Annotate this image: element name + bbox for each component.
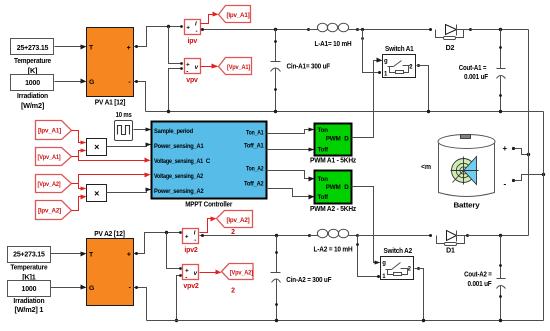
svg-text:-: - [185, 274, 187, 281]
negative bus [543, 112, 545, 321]
svg-text:Irradiation: Irradiation [17, 91, 48, 100]
svg-text:Cin-A1= 300 uF: Cin-A1= 300 uF [287, 64, 331, 71]
goto tag [Vpv_A1] [219, 58, 252, 75]
wire Irradiation1 to PV A2 G [51, 285, 87, 290]
svg-text:Switch A2: Switch A2 [383, 248, 412, 255]
PWM generator block PWM A1 [310, 124, 357, 165]
wire PV A1 - to bottom rail [134, 80, 146, 112]
svg-text:C: C [206, 158, 211, 165]
breaker block Switch A1 [383, 46, 416, 78]
svg-text:[W/m2] 1: [W/m2] 1 [14, 305, 43, 314]
node vpv+ tap [167, 25, 170, 28]
svg-text:-: - [196, 28, 198, 35]
svg-text:G: G [89, 285, 94, 292]
inductor L-A1 [307, 23, 359, 48]
svg-text:PWM A1 - 5KHz: PWM A1 - 5KHz [310, 157, 357, 165]
wire Temperature1 to PV A2 T [51, 252, 87, 257]
svg-text:[Ipv_A2]: [Ipv_A2] [227, 217, 250, 224]
wire switch A2 port 2 to rail [415, 267, 426, 322]
node vpv- on rail [167, 110, 170, 113]
positive bus [528, 30, 530, 236]
PV array block PV A2 [12] [87, 229, 134, 306]
capacitor Cin-A2 [271, 234, 333, 322]
wire product2 to MPPT Power_sensing_A2 [107, 188, 152, 193]
red signal wire ipv2 to goto tag [200, 217, 217, 233]
svg-text:-: - [186, 68, 188, 75]
red wire [Ipv_A1] to product1 [72, 131, 87, 145]
wire tap to vpv2 + [167, 233, 182, 270]
svg-text:+: + [127, 45, 131, 52]
svg-text:0.001 uF: 0.001 uF [468, 281, 493, 288]
red wire [Vpv_A1] to MPPT Voltage_sensing_A1 [79, 157, 151, 163]
svg-text:Power_sensing_A2: Power_sensing_A2 [154, 188, 204, 195]
red signal wire ipv to goto tag [201, 12, 219, 24]
wire PWM A1 D to switch A1 gate [352, 61, 377, 138]
svg-text:[Vpv_A1]: [Vpv_A1] [38, 154, 61, 161]
wire tap to switch A1 port 1 [363, 30, 382, 75]
svg-text:ipv: ipv [188, 38, 198, 45]
svg-text:[K]1: [K]1 [22, 272, 36, 281]
goto tag [Vpv_A2] [222, 264, 254, 295]
svg-text:2: 2 [231, 288, 235, 295]
svg-text:Ton: Ton [318, 127, 329, 134]
wire D1 to + bus [468, 235, 529, 237]
from tag [Ipv_A1] [36, 121, 72, 140]
svg-text:[K]: [K] [28, 66, 38, 75]
red wire [Ipv_A2] to product2 [72, 195, 87, 211]
wire Toff_A1 to PWM A1 [267, 148, 315, 152]
from tag [Ipv_A2] [36, 201, 72, 220]
voltage sensor vpv2 [183, 265, 199, 290]
svg-text:1000: 1000 [25, 80, 40, 87]
wire ipv2 out (main) [200, 234, 310, 237]
svg-text:1000: 1000 [22, 286, 37, 293]
svg-text:[Ipv_A1]: [Ipv_A1] [38, 128, 61, 135]
svg-text:Cout-A1 =: Cout-A1 = [459, 65, 487, 72]
svg-text:G: G [89, 79, 94, 86]
svg-text:Toff: Toff [318, 147, 330, 154]
svg-text:Cout-A2 =: Cout-A2 = [464, 272, 492, 279]
wire Toff_A2 to PWM A2 [267, 189, 315, 200]
product block 1 [87, 139, 107, 156]
battery + port [503, 144, 531, 156]
svg-text:PV A1 [12]: PV A1 [12] [95, 98, 126, 107]
svg-text:Cin-A2 = 300 uF: Cin-A2 = 300 uF [286, 277, 332, 284]
svg-text:Toff_A2: Toff_A2 [244, 181, 264, 188]
svg-text:0.001 uF: 0.001 uF [464, 74, 489, 81]
svg-text:Toff_A1: Toff_A1 [244, 143, 264, 150]
wire PV A1 + to ipv [134, 25, 183, 48]
svg-text:Temperature: Temperature [10, 263, 47, 272]
voltage sensor vpv [185, 59, 201, 84]
red wire [Vpv_A1] branch to product1 [72, 149, 87, 157]
wire PWM A2 D to switch A2 gate [352, 187, 377, 263]
switch A2 gate arrow [375, 261, 381, 265]
svg-text:L-A1= 10 mH: L-A1= 10 mH [315, 41, 352, 48]
svg-text:vpv: vpv [186, 77, 198, 84]
svg-text:Power_sensing_A1: Power_sensing_A1 [154, 143, 204, 150]
capacitor Cout-A1 [459, 28, 506, 113]
svg-text:[Ipv_A2]: [Ipv_A2] [38, 208, 61, 215]
constant block 1000 (Irradiation) [11, 75, 54, 110]
svg-text:D: D [344, 135, 349, 142]
svg-text:L-A2 = 10 mH: L-A2 = 10 mH [314, 246, 353, 253]
svg-text:vpv2: vpv2 [183, 283, 198, 290]
current sensor ipv [185, 20, 201, 45]
product block 2 [87, 185, 107, 202]
PWM generator block PWM A2 [310, 171, 357, 214]
from tag [Vpv_A2] [36, 175, 72, 193]
svg-text:D: D [344, 184, 349, 191]
wire ipv out (main) [201, 28, 309, 31]
svg-text:ipv2: ipv2 [184, 247, 198, 254]
capacitor Cout-A2 [464, 234, 505, 322]
svg-text:-: - [194, 237, 196, 244]
battery - port [504, 173, 546, 189]
pulse generator 10 ms [115, 112, 133, 141]
svg-text:+: + [127, 251, 131, 258]
wire inductor to diode D2 [358, 29, 431, 31]
current sensor ipv2 [183, 229, 199, 254]
bottom rail of converter A1 [146, 111, 544, 113]
svg-text:+: + [503, 144, 508, 153]
svg-text:Toff: Toff [318, 194, 330, 201]
wire tap to switch A2 port 1 [356, 236, 380, 279]
node switch tap A1 [361, 28, 364, 40]
svg-text:PWM A2 - 5KHz: PWM A2 - 5KHz [310, 205, 357, 213]
svg-text:2: 2 [231, 229, 235, 236]
svg-text:g: g [384, 58, 388, 64]
switch A1 gate arrow [377, 58, 383, 63]
svg-text:PWM: PWM [326, 184, 341, 191]
red wire [Vpv_A2] branch to product2 [79, 184, 87, 191]
node vpv2+ tap [165, 231, 168, 234]
wire D2 to + bus [471, 29, 529, 31]
constant block 1000 (Irradiation 1) [8, 281, 51, 315]
svg-text:Sample_period: Sample_period [154, 128, 193, 135]
svg-text:[Vpv_A1]: [Vpv_A1] [227, 64, 250, 71]
goto tag [Ipv_A1] [219, 6, 251, 23]
bottom rail of converter A2 [147, 320, 544, 322]
svg-text:Voltage_sensing_A1: Voltage_sensing_A1 [154, 158, 204, 165]
from tag [Vpv_A1] [36, 148, 72, 166]
red signal wire vpv2 to goto tag [200, 270, 222, 275]
constant block 25+273.15 (Temperature 1) [8, 247, 51, 282]
svg-text:×: × [94, 142, 99, 152]
battery block [438, 135, 495, 210]
wire vpv - to bottom rail [169, 67, 183, 111]
wire product1 to MPPT Power_sensing_A1 [107, 143, 152, 147]
wire Ton_A2 to PWM A2 [267, 171, 315, 182]
svg-text:MPPT Controller: MPPT Controller [185, 200, 232, 209]
constant block 25+273.15 (Temperature) [11, 39, 54, 75]
diode D1 with snubber [429, 231, 469, 255]
svg-text:Temperature: Temperature [14, 56, 51, 65]
svg-text:[Ipv_A1]: [Ipv_A1] [227, 12, 250, 19]
goto tag [Ipv_A2] [217, 211, 253, 236]
red wire [Vpv_A2] to MPPT Voltage_sensing_A2 [72, 173, 151, 184]
svg-text:25+273.15: 25+273.15 [17, 45, 49, 52]
MPPT Controller block [152, 122, 267, 209]
svg-text:[Vpv_A2]: [Vpv_A2] [230, 269, 253, 276]
svg-text:25+273.15: 25+273.15 [13, 252, 45, 259]
svg-text:+: + [186, 24, 190, 31]
wire vpv2 - to bottom rail [175, 274, 182, 322]
wire Irradiation to PV A1 G [55, 79, 87, 84]
svg-text:D1: D1 [446, 247, 455, 254]
diode D2 with snubber [429, 25, 472, 52]
svg-text:10 ms: 10 ms [116, 112, 132, 119]
svg-text:Irradiation: Irradiation [13, 296, 44, 305]
svg-text:Battery: Battery [454, 201, 481, 210]
inductor L-A2 [308, 229, 359, 253]
svg-text:[W/m2]: [W/m2] [21, 101, 45, 110]
svg-text:Voltage_sensing_A2: Voltage_sensing_A2 [154, 173, 204, 180]
svg-text:Ton_A2: Ton_A2 [246, 166, 264, 173]
capacitor Cin-A1 [271, 28, 331, 113]
svg-text:D2: D2 [446, 45, 455, 52]
svg-text:<m: <m [421, 164, 431, 171]
svg-text:×: × [94, 188, 99, 198]
svg-text:PWM: PWM [326, 135, 341, 142]
wire PV A2 - to bottom rail [134, 286, 147, 321]
wire tap to vpv + [169, 27, 183, 65]
wire Temperature to PV A1 T [55, 45, 87, 50]
wire Ton_A1 to PWM A1 [267, 128, 315, 134]
breaker block Switch A2 [381, 248, 414, 280]
svg-text:Switch A1: Switch A1 [385, 46, 414, 53]
wire pulse generator to MPPT Sample_period [134, 128, 152, 132]
svg-text:g: g [382, 261, 386, 267]
wire switch A1 port 2 to rail [417, 64, 431, 113]
PV array block PV A1 [12] [87, 28, 134, 107]
svg-text:[Vpv_A2]: [Vpv_A2] [38, 181, 61, 188]
wire PV A2 + to ipv2 [134, 231, 182, 255]
svg-text:+: + [185, 233, 189, 240]
svg-text:Ton_A1: Ton_A1 [246, 130, 264, 137]
svg-text:PV A2 [12]: PV A2 [12] [94, 229, 125, 238]
wire inductor to diode D1 [358, 235, 431, 237]
svg-text:Ton: Ton [318, 176, 329, 183]
red signal wire vpv to goto tag [201, 64, 219, 69]
